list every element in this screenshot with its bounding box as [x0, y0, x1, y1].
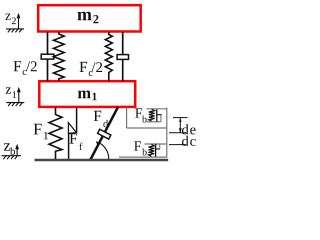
label z2 [5, 14, 15, 25]
friction Ff: lower rod [68, 133, 70, 159]
label Fc/2 right [80, 62, 103, 76]
label de [182, 124, 196, 134]
mass m2 box [38, 5, 141, 31]
label dc [182, 136, 196, 146]
damper Fd: inclined rod [91, 107, 119, 160]
damper Fc/2 right: rod [122, 32, 124, 81]
angle arc with arrow [100, 144, 108, 160]
friction pack Fb bottom: top plate [145, 143, 167, 145]
damper Fc/2 right: dashpot box [117, 55, 128, 60]
friction pack Fb top: inner wall [160, 115, 162, 122]
node z1 ground hatch [6, 103, 24, 107]
wire: hanger from m1 [126, 108, 128, 129]
label m1 [78, 91, 97, 101]
friction pack Fb top: top plate [147, 108, 167, 110]
damper Fd: dashpot box [98, 129, 111, 139]
friction pack Fb top: spring stack [149, 110, 155, 122]
wire: outer frame right wall [166, 108, 168, 157]
damper Fc/2 left: rod [47, 32, 49, 81]
friction Ff: upper rod [76, 108, 78, 133]
friction pack Fb bottom: tick [156, 148, 160, 150]
label z1 [6, 87, 16, 98]
spring Fc/2 left [54, 32, 65, 81]
label F1 [34, 124, 48, 139]
friction pack Fb top: bottom plate [147, 121, 161, 123]
friction pack Fb bottom: spring stack [149, 145, 155, 157]
road line [35, 159, 169, 162]
label m2 [78, 12, 99, 23]
node z2 reference arrow [18, 16, 20, 29]
wire: middle plate [127, 127, 167, 129]
label zb [4, 143, 15, 155]
spring Fc/2 right [105, 32, 112, 81]
label Ff [70, 134, 83, 151]
node z1 reference arrow [18, 90, 20, 103]
friction pack Fb bottom: pin [155, 144, 157, 157]
friction pack Fb top: pin [156, 110, 158, 123]
dimension de: ticks and arrow [169, 118, 188, 133]
wire: outer frame bottom [119, 156, 167, 158]
node z2 ground hatch [6, 29, 24, 33]
friction Ff: wedge triangle [68, 123, 76, 134]
spring F1 [49, 108, 62, 160]
label Fb bottom [134, 141, 147, 155]
dimension dc: tick [169, 144, 186, 146]
friction pack Fb top: tick [157, 114, 162, 116]
damper Fc/2 left: dashpot box [41, 54, 54, 59]
node zb ground hatch [2, 156, 22, 160]
label Fd [94, 111, 108, 128]
label Fc/2 left [14, 61, 37, 75]
mass m1 box [39, 81, 135, 107]
friction pack Fb bottom: inner wall [159, 144, 161, 149]
label Fb top [135, 108, 146, 122]
node zb road input arrow [16, 147, 18, 156]
